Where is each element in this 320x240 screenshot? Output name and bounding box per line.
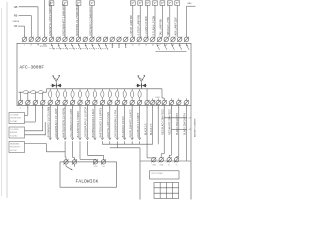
svg-text:P-CB B2: P-CB B2 xyxy=(10,135,17,137)
svg-text:GREEN/WHITE 2.5MM WIRE: GREEN/WHITE 2.5MM WIRE xyxy=(62,3,65,36)
svg-text:BINDER: BINDER xyxy=(10,132,18,134)
contact gang 3 xyxy=(157,43,160,50)
wire RB xyxy=(19,15,32,17)
fuse FV5 xyxy=(79,89,81,91)
terminal X1-22 xyxy=(164,37,169,42)
svg-text:BLUE/RED 1.5 DIP: BLUE/RED 1.5 DIP xyxy=(122,116,125,137)
fuse FV4 xyxy=(72,89,74,91)
terminal X2-21 xyxy=(162,100,167,105)
component box M1 xyxy=(9,113,25,124)
fuse FV2 xyxy=(57,89,59,91)
wire drop W11 xyxy=(124,105,126,139)
wire M2 aux xyxy=(25,134,46,136)
fuse FV11 xyxy=(124,89,126,91)
terminal X1-17 xyxy=(130,37,135,42)
terminal X2-11 xyxy=(92,100,97,105)
wire from E5 xyxy=(161,5,163,37)
connector arrow W5 xyxy=(79,138,82,140)
short wire from box bottom xyxy=(157,105,159,145)
wire from top edge to terminal 4 xyxy=(44,0,46,37)
lamp E5 xyxy=(160,1,165,6)
wire drop W1 xyxy=(49,105,51,139)
terminal X1-5 xyxy=(49,37,54,42)
terminal X1-7 xyxy=(63,37,68,42)
connector arrow W10 xyxy=(116,138,119,140)
wire drop W5 xyxy=(79,105,81,139)
svg-text:18: 18 xyxy=(165,45,167,47)
svg-text:16: 16 xyxy=(152,45,154,47)
svg-text:B+: B+ xyxy=(168,165,170,167)
svg-text:-VE: -VE xyxy=(102,166,105,168)
wire to FALDWICK terminal 1 xyxy=(64,141,66,157)
terminal X1-8 xyxy=(69,37,74,42)
svg-text:TAIL LAMP 5W: TAIL LAMP 5W xyxy=(160,18,163,35)
terminal X2-6 xyxy=(55,100,60,105)
wire from E6 xyxy=(169,5,171,37)
wire drop W3 xyxy=(64,105,66,139)
svg-text:PURPLE/WHITE 1.5 ACC: PURPLE/WHITE 1.5 ACC xyxy=(129,109,132,137)
nameplate rectangle xyxy=(150,171,180,179)
FALDWICK terminal 3 xyxy=(93,159,98,164)
svg-text:BROWN/BLUE 2.5MM WIRE: BROWN/BLUE 2.5MM WIRE xyxy=(76,4,79,36)
terminal X1-25 xyxy=(184,37,189,42)
svg-text:BROWN/GREEN 1.5 AUX: BROWN/GREEN 1.5 AUX xyxy=(92,109,95,138)
connector arrow W1 xyxy=(49,138,52,140)
terminal X2-4 xyxy=(40,100,45,105)
wire drop W9 xyxy=(109,105,111,139)
fuse FV9 xyxy=(109,89,111,91)
wire from E4 xyxy=(154,5,156,37)
fuse FV6 xyxy=(86,89,88,91)
grid row line xyxy=(154,192,179,194)
fuse F3 xyxy=(38,91,44,94)
wire from P3 xyxy=(78,5,80,37)
terminal X2-12 xyxy=(100,100,105,105)
svg-text:C/BUS: C/BUS xyxy=(12,21,19,23)
grid row line xyxy=(154,187,179,189)
terminal X1-11 xyxy=(90,37,95,42)
FALDWICK unit box xyxy=(60,162,117,187)
wire from E2 xyxy=(139,5,141,37)
terminal X1-2 xyxy=(29,37,34,42)
terminal X2-19 xyxy=(150,100,155,105)
svg-text:L.STOP LAMP 8W: L.STOP LAMP 8W xyxy=(130,15,133,36)
connector arrow W6 xyxy=(86,138,89,140)
collector bus 1 xyxy=(109,141,111,144)
terminal X1-6 xyxy=(56,37,61,42)
svg-text:YELLOW/RED 1.5 FLASH: YELLOW/RED 1.5 FLASH xyxy=(70,109,73,138)
wire drop right 4 xyxy=(185,105,187,161)
svg-text:COLUMN: COLUMN xyxy=(10,115,19,117)
terminal X1-19 xyxy=(144,37,149,42)
svg-text:GREEN/BROWN 1.5 TAIL: GREEN/BROWN 1.5 TAIL xyxy=(114,108,117,137)
page edge shadow xyxy=(1,8,3,196)
svg-text:AFC-3000F: AFC-3000F xyxy=(20,65,45,70)
wire M2 to X2-4 xyxy=(25,130,43,132)
connector P3 xyxy=(76,1,81,6)
svg-text:R.STOP LAMP 8W: R.STOP LAMP 8W xyxy=(138,14,141,35)
wire to FALDWICK terminal 4 xyxy=(86,141,88,155)
FALDWICK terminal 2 xyxy=(72,159,77,164)
connector arrow W9 xyxy=(109,138,112,140)
wire from P2 xyxy=(64,5,66,37)
wire HB xyxy=(19,6,38,8)
svg-text:RED/BLACK 1.5 BATT: RED/BLACK 1.5 BATT xyxy=(137,112,140,137)
svg-text:NPC5-D: NPC5-D xyxy=(40,46,48,48)
component box M3 xyxy=(9,142,25,153)
svg-text:BLACK 2.5: BLACK 2.5 xyxy=(144,123,147,135)
fuse FV8 xyxy=(101,89,103,91)
lamp E1 xyxy=(130,1,135,6)
connector arrow W12 xyxy=(131,138,134,140)
terminal X1-1 xyxy=(22,37,27,42)
wire from E7 xyxy=(176,5,178,37)
svg-text:HB: HB xyxy=(14,5,18,9)
terminal X1-21 xyxy=(157,37,162,42)
grid column line xyxy=(159,183,161,199)
terminal X1-13 xyxy=(103,37,108,42)
wire from E1 xyxy=(132,5,134,37)
svg-text:BAT+: BAT+ xyxy=(188,2,194,5)
gang 1 linkage (dashed) xyxy=(50,48,108,50)
terminal X1-23 xyxy=(171,37,176,42)
terminal X1-3 xyxy=(36,37,41,42)
lamp E7 xyxy=(175,1,180,6)
svg-text:17: 17 xyxy=(159,45,161,47)
collector bus 2 xyxy=(116,141,118,148)
connector arrow W4 xyxy=(71,138,74,140)
wire from P1 xyxy=(51,5,53,37)
svg-text:MARKER LP 5W: MARKER LP 5W xyxy=(167,16,170,35)
svg-text:GREEN/YELLOW 2.5MM WIRE: GREEN/YELLOW 2.5MM WIRE xyxy=(49,1,52,36)
lamp E4 xyxy=(153,1,158,6)
fuse chain wire xyxy=(19,91,47,93)
svg-text:SW.BROWN: SW.BROWN xyxy=(10,118,21,120)
terminal X2-16 xyxy=(130,100,135,105)
svg-text:15: 15 xyxy=(145,45,147,47)
terminal X1-20 xyxy=(150,37,155,42)
svg-text:BROWN/RED 1.5 COLUMN: BROWN/RED 1.5 COLUMN xyxy=(47,107,50,138)
svg-text:L: L xyxy=(24,45,25,47)
fuse FV1 xyxy=(49,89,51,91)
lamp E6 xyxy=(167,1,172,6)
stubs from fuse chain to terminals xyxy=(19,92,21,100)
terminal X2-8 xyxy=(70,100,75,105)
connector P2 xyxy=(63,1,68,6)
wire from box bottom joining bus 1 xyxy=(152,105,154,145)
terminal X2-24 xyxy=(184,100,189,105)
connector P1 xyxy=(49,1,54,6)
terminal X2-18 xyxy=(145,100,150,105)
svg-text:GREEN/BLACK 1.5 LAMP: GREEN/BLACK 1.5 LAMP xyxy=(55,108,58,137)
svg-text:P-CB A1: P-CB A1 xyxy=(10,120,17,123)
connector arrow W11 xyxy=(123,138,126,140)
wire BAT+ xyxy=(187,5,196,7)
connector arrow W3 xyxy=(64,138,67,140)
wire M3 routing xyxy=(25,143,47,145)
flasher relay K2 xyxy=(136,75,147,89)
terminal X1-16 xyxy=(123,37,128,42)
terminal X2-13 xyxy=(107,100,112,105)
wire drop W12 xyxy=(131,105,133,139)
terminal X1-9 xyxy=(76,37,81,42)
terminal X2-14 xyxy=(115,100,120,105)
fuse F2 xyxy=(31,91,37,94)
wire drop W4 xyxy=(72,105,74,139)
gang 3 linkage bar xyxy=(156,51,187,53)
AFC-3000F control unit box xyxy=(17,43,191,105)
left margin frame line xyxy=(6,2,8,198)
connector arrow W13 xyxy=(138,138,141,140)
enclosure terminal 4 xyxy=(174,157,179,162)
fuse F1 xyxy=(23,91,29,94)
enclosure terminal 2 xyxy=(159,157,164,162)
wire from box bottom to enclosure terminal 1 xyxy=(146,105,148,158)
wire to FALDWICK terminal 3 xyxy=(79,141,81,159)
trunk wire right side xyxy=(190,106,192,161)
svg-text:C/BM: C/BM xyxy=(152,165,157,167)
bus riser to terminal xyxy=(161,89,163,98)
wire drop W7 xyxy=(94,105,96,139)
terminal X2-2 xyxy=(25,100,30,105)
svg-text:WHITE/BLACK 1.5 EARTH: WHITE/BLACK 1.5 EARTH xyxy=(100,108,103,138)
grid column line xyxy=(171,183,173,199)
terminal X2-20 xyxy=(156,100,161,105)
fuse FV12 xyxy=(131,89,133,91)
wire drop W2 xyxy=(57,105,59,139)
FALDWICK terminal 1 xyxy=(64,159,69,164)
svg-text:BK 12V 45AH: BK 12V 45AH xyxy=(152,172,164,175)
wire from P4 xyxy=(91,5,93,37)
svg-text:R.FLASH LP 21W: R.FLASH LP 21W xyxy=(152,15,155,35)
stub terminal 18 xyxy=(146,89,148,101)
svg-text:14: 14 xyxy=(138,45,140,47)
svg-text:BLACK 2.5: BLACK 2.5 xyxy=(150,123,153,135)
wire drop right 2 with spare stub xyxy=(170,105,172,156)
terminal X1-24 xyxy=(177,37,182,42)
component box M2 xyxy=(9,127,25,138)
terminal X2-15 xyxy=(122,100,127,105)
terminal X1-12 xyxy=(96,37,101,42)
flasher relay K1 xyxy=(51,75,62,89)
wire drop right 3 xyxy=(178,105,180,157)
FALDWICK terminal 4 xyxy=(101,159,106,164)
connector arrow W8 xyxy=(101,138,104,140)
fuse FV10 xyxy=(116,89,118,91)
svg-text:BLUE/WHITE 1.5 MAIN: BLUE/WHITE 1.5 MAIN xyxy=(77,111,80,137)
svg-text:HEADWAY: HEADWAY xyxy=(10,143,20,146)
terminal X1-14 xyxy=(110,37,115,42)
enclosure terminal 1 xyxy=(151,157,156,162)
wire LB xyxy=(18,25,25,27)
internal bus xyxy=(47,88,163,90)
contact gang 1 xyxy=(52,43,55,50)
terminal X2-9 xyxy=(78,100,83,105)
terminal X1-18 xyxy=(137,37,142,42)
svg-text:RED/YELLOW 1.5 IGN: RED/YELLOW 1.5 IGN xyxy=(107,112,110,137)
lamp E2 xyxy=(138,1,143,6)
terminal grid table xyxy=(154,183,179,199)
terminal X2-23 xyxy=(176,100,181,105)
connector arrow W2 xyxy=(56,138,59,140)
internal switch xyxy=(65,164,67,167)
svg-text:L.FLASH LP 21W: L.FLASH LP 21W xyxy=(145,16,148,36)
wire drop W8 xyxy=(101,105,103,139)
svg-text:AUX LAMP 21W: AUX LAMP 21W xyxy=(175,17,178,36)
enclosure terminal 3 xyxy=(167,157,172,162)
fuse FV3 xyxy=(64,89,66,91)
svg-text:13: 13 xyxy=(132,45,134,47)
svg-text:FRONT/FLT: FRONT/FLT xyxy=(10,147,21,149)
fuse FV7 xyxy=(94,89,96,91)
wire from E3 xyxy=(147,5,149,37)
svg-text:COLUMN: COLUMN xyxy=(10,129,19,131)
svg-text:a: a xyxy=(20,107,21,109)
svg-text:GREEN/PURPLE 1.5 STOP: GREEN/PURPLE 1.5 STOP xyxy=(85,107,88,138)
terminal X2-22 xyxy=(169,100,174,105)
wire drop right 1 with spare stub xyxy=(163,105,165,154)
terminal X1-4 xyxy=(42,37,47,42)
svg-text:GREEN/RED 2.5MM WIRE: GREEN/RED 2.5MM WIRE xyxy=(89,6,92,36)
battery/junction enclosure xyxy=(140,161,191,200)
wire drop W6 xyxy=(86,105,88,139)
terminal X2-10 xyxy=(85,100,90,105)
terminal X2-5 xyxy=(48,100,53,105)
svg-text:FALDWICK: FALDWICK xyxy=(76,179,99,185)
lamp E3 xyxy=(145,1,150,6)
terminal X2-3 xyxy=(33,100,38,105)
svg-text:LB: LB xyxy=(14,24,17,28)
wire drop W10 xyxy=(116,105,118,139)
connector P4 xyxy=(90,1,95,6)
svg-text:BATTERY/CHASSIS: BATTERY/CHASSIS xyxy=(194,118,197,137)
svg-text:RB: RB xyxy=(14,14,18,18)
terminal X2-1 xyxy=(18,100,23,105)
svg-text:WHITE/GREEN 1.5 HORN: WHITE/GREEN 1.5 HORN xyxy=(62,108,65,137)
terminal X1-10 xyxy=(83,37,88,42)
wire M1 to X2-2 xyxy=(25,114,28,116)
svg-text:H-COM: H-COM xyxy=(10,150,17,152)
wire M1 to X2-3 xyxy=(25,121,36,123)
terminal X2-17 xyxy=(137,100,142,105)
terminal X2-7 xyxy=(63,100,68,105)
connector arrow W7 xyxy=(94,138,97,140)
grid column line xyxy=(165,183,167,199)
svg-text:C/BM: C/BM xyxy=(159,165,164,167)
riser to bus xyxy=(46,89,48,92)
fuse FV13 xyxy=(139,89,141,91)
wire to FALDWICK terminal 2 xyxy=(72,141,74,157)
terminal X1-15 xyxy=(117,37,122,42)
svg-text:C/BM: C/BM xyxy=(155,97,160,99)
wire drop W13 xyxy=(139,105,141,139)
contact gang 2 xyxy=(111,43,113,46)
